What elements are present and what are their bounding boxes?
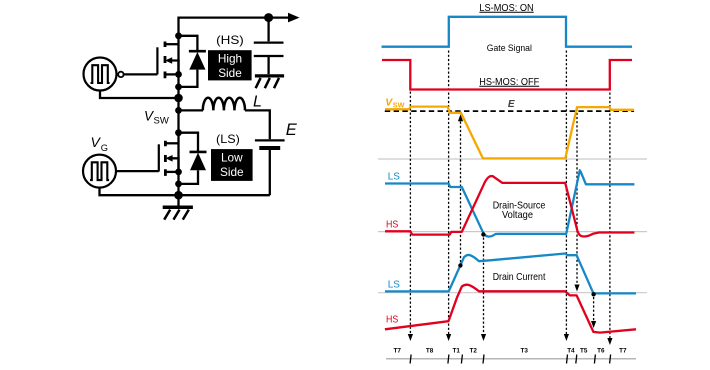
svg-text:LS: LS [388,171,400,182]
svg-text:G: G [101,143,108,153]
svg-text:T1: T1 [453,347,461,354]
svg-text:Side: Side [220,165,244,179]
svg-text:T4: T4 [567,347,575,354]
svg-text:(LS): (LS) [216,132,240,146]
svg-text:High: High [218,52,242,66]
svg-text:(HS): (HS) [216,33,244,47]
svg-text:L: L [253,94,262,111]
svg-text:HS: HS [386,314,398,325]
svg-text:LS: LS [388,279,400,290]
svg-text:SW: SW [154,115,169,126]
svg-text:T2: T2 [470,347,478,354]
svg-text:T5: T5 [580,347,588,354]
svg-text:HS: HS [386,219,398,230]
svg-text:Drain Current: Drain Current [493,272,546,283]
svg-text:Low: Low [221,151,243,165]
svg-text:T7: T7 [619,347,627,354]
svg-text:T3: T3 [521,347,529,354]
svg-text:Side: Side [218,66,242,80]
svg-text:T8: T8 [426,347,434,354]
svg-text:T6: T6 [597,347,605,354]
svg-text:Gate Signal: Gate Signal [487,43,532,53]
svg-text:SW: SW [393,101,405,110]
svg-text:E: E [286,121,298,139]
svg-text:Voltage: Voltage [502,210,533,221]
svg-text:E: E [508,99,515,110]
svg-text:T7: T7 [394,347,402,354]
